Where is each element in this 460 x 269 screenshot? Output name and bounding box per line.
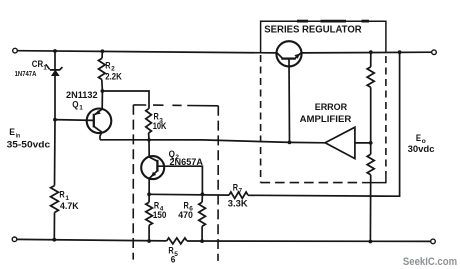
wire: rail to R2 <box>101 51 103 58</box>
Q2 emitter arrow (NPN) <box>151 172 156 177</box>
resistor R4 zigzag <box>146 202 153 225</box>
wire: lower resistor to bottom rail <box>369 175 371 242</box>
output terminal + (top right) <box>432 50 437 55</box>
output terminal - (bottom right) <box>431 239 436 244</box>
dashed box: sense network top edge <box>133 104 218 107</box>
wire: emitter node to R3 feed <box>102 91 149 109</box>
dashed box: sense network left edge <box>132 105 134 260</box>
Q2 base bar <box>156 160 158 172</box>
wire: Q2 emitter down <box>148 178 150 194</box>
resistor divider upper zigzag <box>367 67 374 87</box>
resistor R7 zigzag <box>229 192 248 198</box>
svg-text:2N1132: 2N1132 <box>66 90 98 100</box>
svg-text:6: 6 <box>171 255 176 265</box>
node: R4 bottom rail <box>147 239 151 243</box>
node: Q1 base junction <box>53 118 57 122</box>
Q2 base lead wire <box>157 166 202 194</box>
svg-text:470: 470 <box>178 209 193 220</box>
wire: R6 bottom lead <box>201 226 203 241</box>
wire: Q1 emitter up to node <box>101 91 103 109</box>
svg-text:ERROR: ERROR <box>315 102 348 112</box>
transistor Q1 circle <box>87 109 112 134</box>
dashed box: regulator left edge <box>260 55 262 183</box>
node: R6 bottom rail <box>200 239 204 243</box>
svg-text:R: R <box>233 182 239 192</box>
svg-text:4.7K: 4.7K <box>60 200 79 211</box>
input terminal - (bottom left) <box>12 237 17 242</box>
wire: Q3 base down to mid wire <box>288 59 291 143</box>
input terminal + (top left) <box>13 48 18 53</box>
wire: Q1 base lead <box>55 119 94 122</box>
resistor R3 zigzag <box>146 109 152 133</box>
resistor R2 zigzag <box>99 58 106 79</box>
wire: upper resistor to tap node <box>370 87 372 143</box>
node: R3/Q2 tap on mid wire <box>147 138 150 141</box>
svg-text:2.2K: 2.2K <box>105 71 122 82</box>
wire: bottom rail left of R5 <box>17 239 167 241</box>
wire: CR1 to Q1 base node <box>54 76 56 120</box>
Q3 base bar <box>281 57 296 59</box>
resistor R6 zigzag <box>199 202 206 226</box>
wire: amplifier to divider tap <box>355 142 371 144</box>
svg-text:AMPLIFIER: AMPLIFIER <box>300 114 352 124</box>
svg-text:SERIES REGULATOR: SERIES REGULATOR <box>264 25 362 36</box>
svg-text:R: R <box>105 60 111 70</box>
Q3 collector lead <box>277 53 283 59</box>
wire: Q1 collector down <box>100 132 102 140</box>
transistor Q3 circle <box>276 41 301 66</box>
wire: R4 top lead <box>148 194 150 202</box>
node: rail/R2 junction <box>101 49 105 53</box>
node: rail/divider junction <box>369 50 373 54</box>
dashed box: regulator bottom edge <box>261 182 363 184</box>
box top edge thick dashes <box>297 20 369 23</box>
svg-text:1: 1 <box>79 104 83 111</box>
resistor divider lower zigzag <box>367 154 374 175</box>
Q1 collector lead <box>94 126 102 132</box>
Q1 emitter arrow (PNP) <box>95 110 101 115</box>
zener diode CR1 <box>50 67 63 76</box>
node: divider tap <box>369 141 373 145</box>
Q3 emitter lead <box>295 53 301 59</box>
Q1 emitter lead <box>94 109 102 115</box>
resistor R1 zigzag <box>51 186 59 213</box>
wire: node to R1 <box>54 120 57 186</box>
node: R1/bottom rail <box>52 238 56 242</box>
svg-text:150: 150 <box>153 209 167 220</box>
transistor Q2 circle <box>141 156 164 179</box>
node: Q2 emitter / R4 <box>147 192 151 196</box>
svg-text:CR: CR <box>32 59 44 69</box>
node: divider bottom rail <box>369 240 373 244</box>
svg-text:7: 7 <box>239 187 243 194</box>
resistor R5 zigzag (in bottom rail) <box>167 238 187 244</box>
wire: CR1 branch upper <box>54 51 56 70</box>
svg-text:E: E <box>9 127 15 138</box>
wire: R2 to emitter node <box>101 80 104 92</box>
wire: top rail left of Q3 <box>17 51 277 53</box>
wire: tap to lower divider resistor <box>370 143 372 154</box>
svg-text:SeekIC.com: SeekIC.com <box>403 256 457 268</box>
box: SERIES REGULATOR solid outline <box>261 21 386 53</box>
label pointer for CR1 <box>46 64 50 69</box>
svg-text:R: R <box>59 190 65 200</box>
node: R2 bottom / Q1 emitter <box>101 89 105 93</box>
svg-text:35-50vdc: 35-50vdc <box>7 138 51 149</box>
op-amp error amplifier triangle <box>325 127 355 158</box>
dashed box: regulator right edge <box>385 56 387 174</box>
wire: Q1 collector to amplifier input <box>100 140 325 143</box>
svg-text:3.3K: 3.3K <box>228 198 248 209</box>
wire: R4 bottom lead <box>148 225 150 241</box>
Q2 collector lead <box>149 157 157 161</box>
node: Q2 base / R6 <box>201 192 205 196</box>
wire: R7 to output rail riser <box>248 52 400 196</box>
dashed box: sense network right edge <box>217 106 219 261</box>
wire: top rail right of Q3 <box>301 51 432 54</box>
Q1 base bar <box>93 114 95 128</box>
wire: mid wire to Q2 collector <box>148 140 150 157</box>
wire: R6 top lead <box>201 194 203 202</box>
node: riser on top rail <box>398 50 402 54</box>
svg-text:1N747A: 1N747A <box>15 69 37 78</box>
svg-text:2N657A: 2N657A <box>170 157 204 167</box>
svg-text:30vdc: 30vdc <box>408 143 435 154</box>
Q3 emitter arrow (NPN) <box>294 54 299 59</box>
node: Q3 base tap on mid wire <box>288 141 292 145</box>
svg-text:1: 1 <box>43 65 47 72</box>
node: rail/CR1 junction <box>53 49 57 53</box>
wire: rail to upper divider resistor <box>370 52 372 67</box>
wire: emitter node to R7 <box>149 193 229 196</box>
svg-text:Q: Q <box>72 99 78 109</box>
wire: bottom rail right of R5 <box>187 240 431 242</box>
wire: R3 to mid wire <box>148 133 150 140</box>
Q2 emitter lead <box>149 171 157 179</box>
svg-text:10K: 10K <box>153 120 167 131</box>
wire: R1 to bottom rail <box>53 213 55 240</box>
